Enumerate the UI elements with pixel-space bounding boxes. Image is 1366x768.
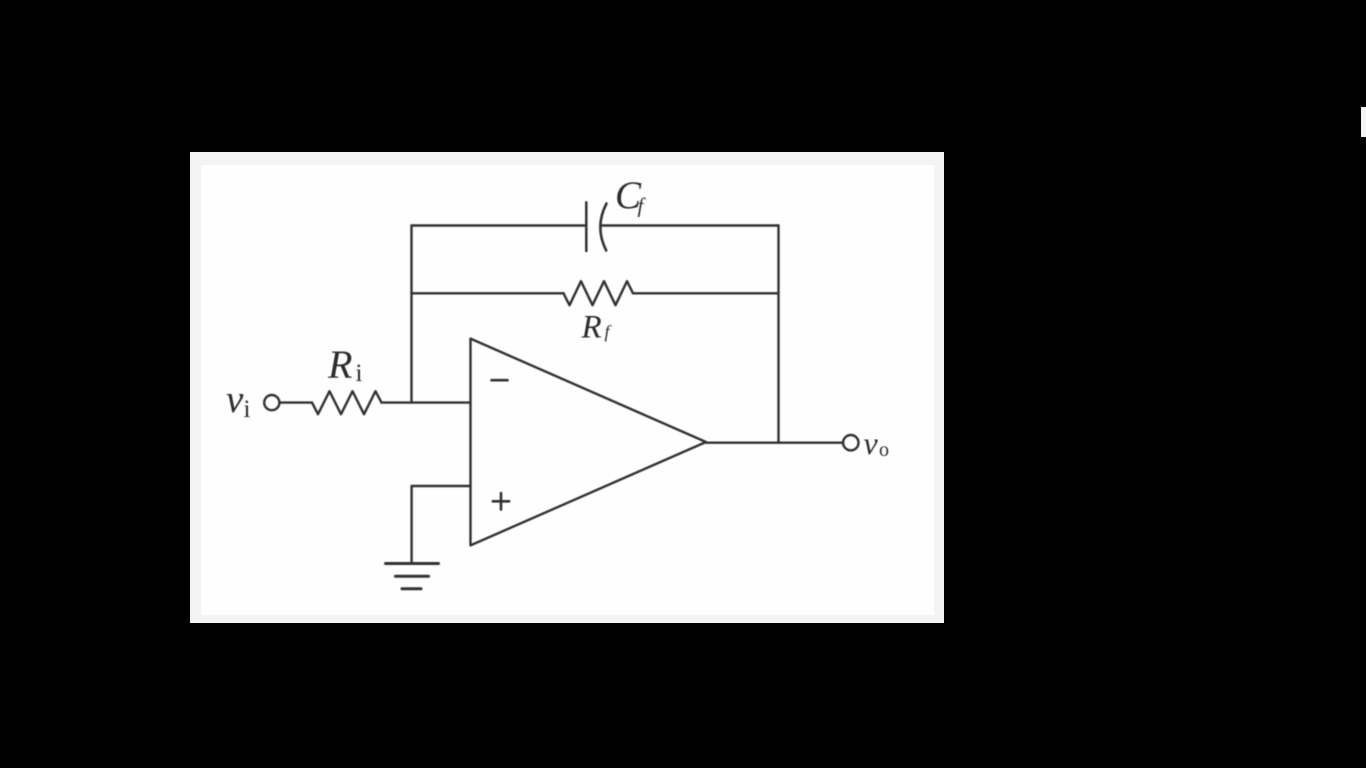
svg-text:i: i (244, 396, 251, 423)
wire: right vertical riser down to output node (777, 226, 779, 443)
wire: vi terminal to Ri (280, 401, 312, 403)
capacitor C1 (Cf) right curved plate (600, 204, 606, 251)
resistor R2 (Rf) zigzag (564, 281, 634, 305)
op-amp minus pin label (492, 379, 508, 382)
wire: Rf branch left lead (412, 292, 564, 294)
wire: non-inverting input to ground corner (412, 486, 471, 563)
wire: top feedback, node A riser to Cf left plate (412, 224, 587, 226)
wire: Rf right lead to right vertical riser (633, 292, 779, 294)
op-amp U1 triangle body (471, 339, 707, 546)
op-amp plus pin label (493, 493, 509, 509)
wire: Ri to op-amp inverting input (node A junction) (382, 401, 471, 403)
figure panel background (190, 152, 944, 623)
wire: op-amp output to vo terminal (706, 442, 842, 444)
resistor R1 (Ri) zigzag (312, 391, 382, 414)
svg-text:i: i (356, 360, 363, 387)
output terminal vo (open circle) (843, 435, 858, 450)
scrollbar sliver at right edge (1361, 107, 1366, 137)
svg-text:R: R (581, 309, 602, 345)
ground symbol (386, 564, 439, 589)
svg-text:R: R (327, 342, 352, 387)
wire: left vertical feedback riser from node A (410, 226, 412, 403)
svg-text:v: v (226, 378, 244, 421)
svg-text:f: f (638, 194, 647, 218)
input terminal vi (open circle) (264, 395, 279, 410)
svg-text:v: v (864, 425, 879, 461)
wire: Cf right plate to right vertical riser (601, 224, 779, 226)
svg-text:f: f (605, 322, 613, 342)
svg-text:o: o (879, 439, 889, 461)
capacitor C1 (Cf) left plate (585, 202, 588, 251)
